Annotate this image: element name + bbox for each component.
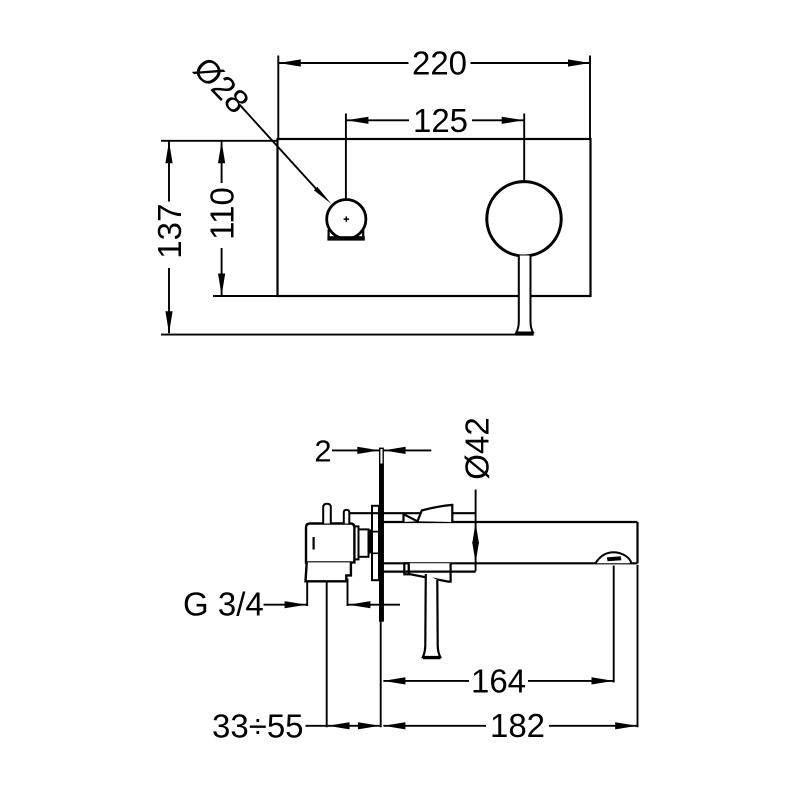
svg-text:Ø28: Ø28 [187,50,257,121]
svg-text:33÷55: 33÷55 [212,708,304,745]
handle base bracket [327,230,364,241]
wall plate edge view [379,448,384,621]
label G 3/4 [183,586,307,623]
outlet wave at spout end [596,552,631,563]
spout tube side view [383,522,637,563]
svg-text:125: 125 [413,102,468,139]
extension lines below body [307,579,347,607]
svg-text:137: 137 [151,204,188,259]
dim 220 [278,45,590,138]
lever handle bottom mirror [404,563,450,581]
hanging handle tube [423,574,441,658]
leader arrow to body right [348,601,400,608]
svg-text:182: 182 [490,707,545,744]
svg-text:Ø42: Ø42 [458,417,495,479]
extension line outlet (164 right) [613,566,615,683]
inlet pipe 2 [344,510,350,524]
inlet pipe 1 [323,504,331,524]
svg-text:G 3/4: G 3/4 [183,586,264,623]
dim 110 [204,141,277,296]
dim 2 (plate thickness) [314,433,431,468]
handle circle (Ø28) [327,200,366,239]
step adapter A [354,526,359,559]
lever handle top [404,505,453,522]
dim Ø42 [458,417,495,571]
dim 182 [383,707,637,744]
dark nipple [368,529,371,553]
dim 164 [383,662,613,699]
svg-text:2: 2 [314,433,331,468]
extension line plate bottom [380,621,382,727]
svg-text:220: 220 [412,45,467,82]
label Ø28 with leader [187,50,332,204]
svg-text:164: 164 [471,662,526,699]
front spout tube below circle [516,256,533,333]
dim 137 [151,141,516,335]
extension line 33÷55 left [326,582,328,728]
collar top line [349,512,475,514]
spout circle (escutcheon) [487,182,561,256]
valve body main block [306,524,354,563]
valve body lower section with step [306,562,351,581]
wall plate front view rectangle [278,139,591,296]
svg-text:110: 110 [204,187,241,240]
dim 33÷55 [212,708,380,745]
collar bottom line [383,570,475,572]
extension line spout end (182 right) [637,565,639,727]
dim 125 [346,102,524,198]
mounting flange behind plate [372,506,379,580]
step adapter B [358,529,368,556]
